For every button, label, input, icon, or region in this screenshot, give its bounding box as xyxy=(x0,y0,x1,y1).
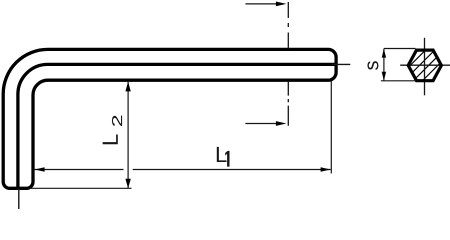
hex key middle edge line xyxy=(18,64,337,187)
hexagon cross-section hatching xyxy=(383,47,450,83)
s dimension extension line bottom xyxy=(381,80,416,82)
L2 top arrowhead xyxy=(125,82,130,92)
L1 right arrowhead xyxy=(321,167,331,171)
label L2 (rotated) xyxy=(103,135,118,145)
s bottom arrowhead xyxy=(382,72,386,81)
s dimension line xyxy=(383,49,385,81)
extension line right tip (L1 datum) xyxy=(330,81,332,173)
dimension line L2 xyxy=(127,82,129,189)
centerline stub right of tip xyxy=(332,63,351,65)
hex key outer contour xyxy=(3,49,336,188)
s dimension extension line top xyxy=(384,48,416,50)
dimension line L1 xyxy=(35,169,124,171)
label L2 subscript 2 (rotated) xyxy=(112,116,122,126)
label L1 subscript 1 xyxy=(225,151,229,167)
centerline stub below bottom tip xyxy=(18,189,20,210)
label s (rotated) xyxy=(367,61,378,70)
L2 bottom arrowhead xyxy=(125,179,130,189)
s top arrowhead xyxy=(382,49,386,58)
label L1 xyxy=(217,147,227,162)
section position arrow bottom xyxy=(245,123,277,125)
hexagon cross-section outline xyxy=(408,50,441,81)
section dash-dot line upper xyxy=(287,2,289,49)
extension line bottom of key (L2 datum) xyxy=(30,187,132,189)
L1 left arrowhead xyxy=(35,167,45,171)
section position arrow top xyxy=(245,3,277,5)
section dash-dot line lower xyxy=(287,82,289,126)
hexagon horizontal centerline xyxy=(400,64,450,66)
hexagon vertical centerline xyxy=(424,38,426,96)
